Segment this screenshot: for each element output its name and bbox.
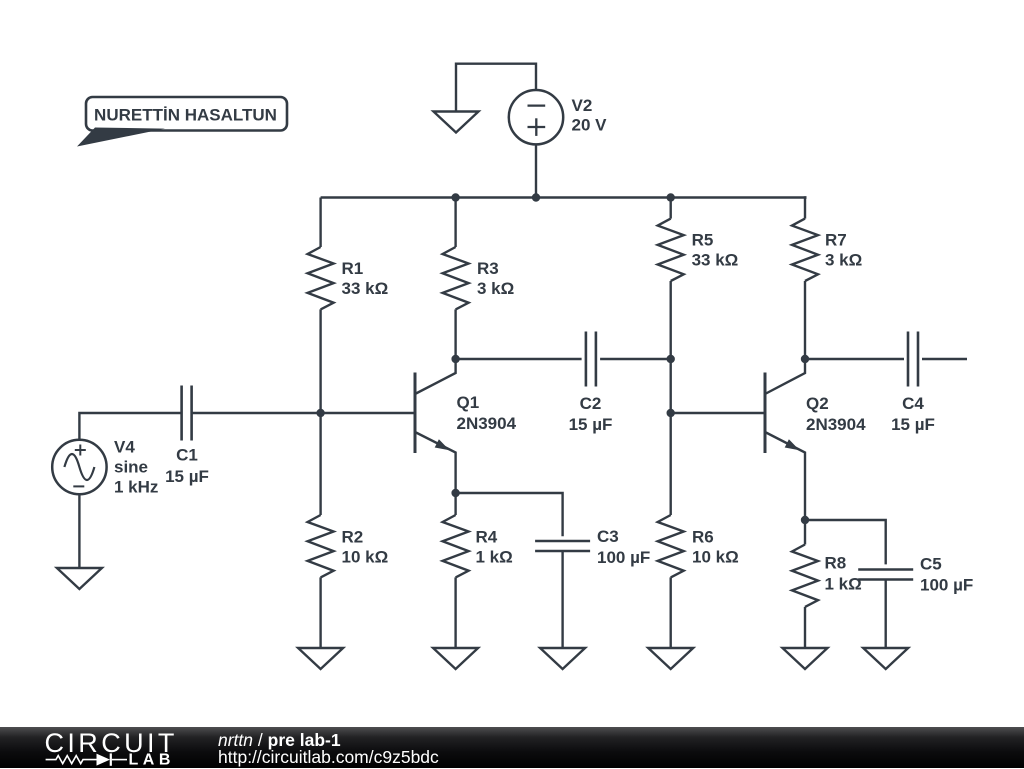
wire R6 to ground bbox=[670, 577, 672, 648]
voltage source V2 bbox=[509, 90, 563, 144]
wire C5 to ground bbox=[885, 580, 887, 649]
svg-text:Q1: Q1 bbox=[457, 393, 480, 412]
svg-text:LAB: LAB bbox=[129, 752, 175, 769]
svg-text:1 kΩ: 1 kΩ bbox=[825, 575, 862, 594]
node Q1 emitter bbox=[451, 489, 459, 497]
wire R1 to base node bbox=[319, 309, 321, 413]
wire supply bus bbox=[321, 196, 807, 198]
transistor Q2 bbox=[765, 359, 805, 520]
resistor R8 bbox=[792, 545, 818, 607]
wire base node to Q1 bbox=[321, 412, 415, 414]
node Q1 collector bbox=[451, 355, 459, 363]
svg-text:2N3904: 2N3904 bbox=[806, 415, 866, 434]
svg-text:V2: V2 bbox=[572, 96, 593, 115]
footer bar bbox=[0, 727, 1024, 768]
svg-text:C1: C1 bbox=[176, 446, 198, 465]
resistor R7 bbox=[792, 219, 818, 281]
wire Q2 emitter to C5 bbox=[805, 520, 886, 564]
CircuitLab logo wordmark CIRCUIT bbox=[45, 728, 178, 758]
ground R4 bbox=[433, 648, 478, 669]
svg-text:R8: R8 bbox=[825, 554, 847, 573]
ground top (V2 negative) bbox=[434, 112, 479, 133]
label C2 15 µF bbox=[569, 394, 613, 434]
transistor Q1 bbox=[415, 359, 456, 493]
svg-text:R4: R4 bbox=[476, 528, 498, 547]
CircuitLab logo wordmark LAB bbox=[129, 752, 175, 769]
svg-text:C5: C5 bbox=[920, 555, 942, 574]
svg-text:C2: C2 bbox=[580, 394, 602, 413]
wire bus to R3 bbox=[454, 198, 456, 248]
svg-text:sine: sine bbox=[114, 458, 148, 477]
resistor R4 bbox=[443, 515, 469, 577]
resistor R5 bbox=[658, 219, 684, 281]
ground C3 bbox=[540, 648, 585, 669]
wire V2 to supply bus bbox=[535, 144, 537, 197]
wire V4 to ground bbox=[78, 494, 80, 568]
resistor R6 bbox=[658, 515, 684, 577]
wire V2 top to ground bbox=[456, 64, 536, 112]
svg-text:20 V: 20 V bbox=[572, 116, 608, 135]
svg-text:3 kΩ: 3 kΩ bbox=[825, 251, 862, 270]
capacitor C2 bbox=[586, 332, 596, 387]
wire R2 to ground bbox=[319, 577, 321, 648]
capacitor C4 bbox=[908, 332, 918, 387]
svg-text:100 µF: 100 µF bbox=[597, 548, 650, 567]
label V2 20 V bbox=[572, 96, 608, 135]
label C4 15 µF bbox=[891, 394, 935, 434]
label C3 100 µF bbox=[597, 527, 650, 567]
wire C2 to R5 node bbox=[600, 358, 671, 360]
wire R8 to ground bbox=[804, 607, 806, 648]
wire bus to R5 bbox=[670, 198, 672, 219]
resistor R3 bbox=[443, 247, 469, 309]
svg-text:C3: C3 bbox=[597, 527, 619, 546]
svg-text:15 µF: 15 µF bbox=[891, 415, 935, 434]
svg-text:3 kΩ: 3 kΩ bbox=[477, 279, 514, 298]
label R6 10 kΩ bbox=[692, 528, 739, 567]
ground V4 bbox=[57, 568, 102, 589]
wire Q1 emitter to R4 bbox=[454, 493, 456, 515]
annotation name bubble NURETTİN HASALTUN bbox=[77, 97, 287, 147]
label V4 sine 1 kHz bbox=[114, 438, 158, 497]
wire R7 to Q2 collector node bbox=[804, 281, 806, 359]
wire Q1 emitter to C3 bbox=[456, 493, 563, 536]
capacitor C5 bbox=[858, 570, 913, 580]
label R4 1 kΩ bbox=[476, 528, 513, 567]
ground C5 bbox=[863, 648, 908, 669]
wire Q1 collector to C2 bbox=[456, 358, 582, 360]
wire base net to R6 bbox=[670, 413, 672, 515]
label R8 1 kΩ bbox=[825, 554, 862, 594]
svg-text:R1: R1 bbox=[342, 259, 364, 278]
label C5 100 µF bbox=[920, 555, 973, 595]
label C1 15 µF bbox=[165, 446, 209, 487]
svg-text:C4: C4 bbox=[902, 394, 924, 413]
wire V4 to C1 bbox=[79, 413, 181, 440]
wire R3 to Q1 collector node bbox=[454, 309, 456, 359]
wire bus to R7 bbox=[805, 198, 807, 219]
label Q2 2N3904 bbox=[806, 394, 866, 434]
footer title nrttn / pre lab-1 bbox=[218, 730, 341, 751]
resistor R1 bbox=[308, 247, 334, 309]
wire bus to R1 bbox=[319, 198, 321, 248]
svg-text:R5: R5 bbox=[692, 231, 714, 250]
label R1 33 kΩ bbox=[342, 259, 389, 298]
svg-text:100 µF: 100 µF bbox=[920, 576, 973, 595]
ground R2 bbox=[298, 648, 343, 669]
label R3 3 kΩ bbox=[477, 259, 514, 298]
label R5 33 kΩ bbox=[692, 231, 739, 270]
svg-text:R6: R6 bbox=[692, 528, 714, 547]
voltage source V4 bbox=[52, 440, 106, 494]
wire Q2 emitter to R8 bbox=[804, 520, 806, 545]
node Q2 emitter bbox=[801, 516, 809, 524]
svg-text:2N3904: 2N3904 bbox=[457, 414, 517, 433]
footer url bbox=[218, 747, 439, 768]
node Q2 base net bbox=[667, 409, 675, 417]
svg-text:R2: R2 bbox=[342, 528, 364, 547]
capacitor C3 bbox=[535, 541, 590, 551]
svg-text:V4: V4 bbox=[114, 438, 135, 457]
svg-text:33 kΩ: 33 kΩ bbox=[692, 251, 739, 270]
wire base net to Q2 bbox=[671, 412, 765, 414]
wire R4 to ground bbox=[454, 577, 456, 648]
wire C3 to ground bbox=[561, 551, 563, 648]
svg-text:10 kΩ: 10 kΩ bbox=[692, 548, 739, 567]
svg-text:1 kHz: 1 kHz bbox=[114, 478, 158, 497]
label R2 10 kΩ bbox=[342, 528, 389, 567]
node C2-R5 bbox=[667, 355, 675, 363]
ground R6 bbox=[648, 648, 693, 669]
node bus-V2 bbox=[532, 193, 540, 201]
svg-text:R3: R3 bbox=[477, 259, 499, 278]
svg-text:33 kΩ: 33 kΩ bbox=[342, 279, 389, 298]
svg-text:1 kΩ: 1 kΩ bbox=[476, 548, 513, 567]
svg-text:Q2: Q2 bbox=[806, 394, 829, 413]
label R7 3 kΩ bbox=[825, 231, 862, 270]
svg-text:15 µF: 15 µF bbox=[569, 415, 613, 434]
label Q1 2N3904 bbox=[457, 393, 517, 433]
capacitor C1 bbox=[182, 386, 192, 441]
resistor R2 bbox=[308, 515, 334, 577]
wire Q2 collector to C4 bbox=[805, 358, 904, 360]
svg-text:R7: R7 bbox=[825, 231, 847, 250]
svg-text:NURETTİN HASALTUN: NURETTİN HASALTUN bbox=[94, 105, 277, 124]
wire C1 to base node bbox=[192, 412, 321, 414]
svg-text:15 µF: 15 µF bbox=[165, 467, 209, 486]
wire base node to R2 bbox=[319, 413, 321, 515]
wire R5 to Q2 base net bbox=[670, 281, 672, 413]
node Q1 base net bbox=[316, 409, 324, 417]
node Q2 collector bbox=[801, 355, 809, 363]
node bus-R5 bbox=[667, 193, 675, 201]
wire C4 output stub bbox=[922, 358, 967, 360]
CircuitLab logo resistor-diode squiggle bbox=[46, 753, 127, 765]
node bus-R3 bbox=[451, 193, 459, 201]
ground R8 bbox=[783, 648, 828, 669]
svg-text:10 kΩ: 10 kΩ bbox=[342, 548, 389, 567]
